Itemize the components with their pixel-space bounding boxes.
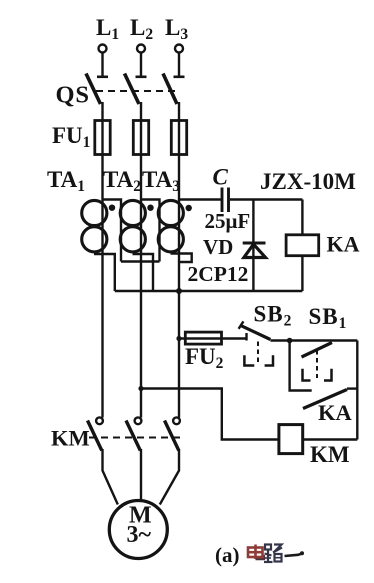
button SB1 operator dashed (316, 350, 318, 378)
contactor KM blade 1 (88, 421, 102, 451)
svg-text:JZX-10M: JZX-10M (260, 169, 356, 194)
motor M circle (109, 501, 167, 559)
terminal circle L2 (137, 45, 145, 53)
wire KM coil return (141, 389, 279, 440)
switch QS blade 1 (86, 74, 101, 105)
contactor KM linkage dashed (89, 437, 180, 439)
terminal circle L3 (175, 45, 183, 53)
node TA3 polarity dot (186, 205, 192, 211)
capacitor C plates (221, 188, 224, 213)
svg-text:2CP12: 2CP12 (188, 262, 249, 286)
caption hanzi lu (264, 545, 282, 563)
contactor KM blade 3 (165, 421, 179, 451)
wire L2 drop (140, 53, 142, 77)
transformer TA1 coil (82, 200, 107, 225)
wire TA1 secondary bottom (94, 254, 115, 291)
relay KA coil (286, 235, 319, 256)
svg-text:KM: KM (51, 426, 90, 451)
wire TA1-TA2 secondary link (121, 260, 160, 262)
node phase2 tap junction (138, 386, 143, 391)
contactor KM blade 2 (126, 421, 140, 451)
wire right branch vertical (356, 341, 358, 440)
contactor KM pivot circle 2 (135, 417, 142, 424)
contactor KM coil (279, 425, 303, 454)
contactor KM pivot circle 3 (173, 417, 180, 424)
wire right branch to KM coil (303, 438, 358, 440)
wire motor lead 3 (160, 449, 179, 505)
contact KA blade tick (347, 387, 357, 389)
fuse FU2 (185, 332, 221, 344)
wire motor lead 1 (103, 449, 118, 505)
switch QS blade 2 (125, 74, 140, 105)
fuse FU1 pole1 (95, 121, 110, 155)
wire phase2 vertical (140, 102, 142, 418)
svg-text:KM: KM (310, 442, 350, 467)
button SB2 fixed hooks (244, 355, 254, 365)
contactor KM pivot circle 1 (96, 417, 103, 424)
svg-text:QS: QS (56, 82, 90, 109)
wire motor lead 2 (140, 449, 142, 501)
relay KA branch wire bottom (301, 256, 303, 291)
button SB1 blade (302, 343, 333, 358)
wire phase1 vertical (101, 102, 103, 418)
node FU2 tap junction (176, 336, 181, 341)
switch QS linkage dashed (96, 90, 175, 92)
relay KA branch wire top (301, 200, 303, 235)
svg-text:C: C (213, 165, 229, 190)
svg-text:3~: 3~ (127, 522, 152, 548)
wire TA3 secondary loop (171, 254, 192, 263)
wire phase3 vertical (178, 102, 180, 418)
node bus-phase3 junction (176, 288, 182, 294)
wire TA1 secondary top (103, 200, 122, 262)
button SB2 contact tick (245, 333, 247, 341)
switch QS fixed contact 1 (97, 76, 108, 79)
button SB2 operator dashed (257, 342, 259, 366)
wire secondary bus (115, 290, 303, 292)
switch QS blade 3 (163, 74, 177, 105)
switch QS fixed contact 3 (174, 76, 185, 79)
transformer TA3 coil (158, 200, 183, 225)
node TA2 polarity dot (147, 205, 153, 211)
svg-text:(a): (a) (215, 543, 240, 567)
wire L1 drop (101, 53, 103, 77)
fuse FU1 pole3 (171, 121, 186, 155)
wire TA2 secondary top (141, 200, 160, 262)
button SB2 blade end tick (239, 321, 244, 328)
diode VD cathode bar (243, 242, 266, 245)
wire capacitor to relay (230, 198, 303, 200)
transformer TA2 coil (120, 200, 145, 225)
svg-text:VD: VD (203, 235, 233, 259)
fuse FU1 pole2 (133, 121, 148, 155)
button SB1 fixed hooks (303, 369, 311, 381)
svg-text:KA: KA (327, 232, 360, 257)
contact KA blade (303, 390, 347, 409)
caption hanzi dian (248, 545, 264, 560)
svg-text:KA: KA (318, 400, 353, 425)
caption hanzi yi (285, 553, 304, 556)
wire SB1 left branch (290, 341, 312, 391)
fuse FU2 feed wire (179, 337, 247, 339)
wire TA3 secondary to capacitor (179, 198, 221, 200)
svg-text:25μF: 25μF (205, 209, 251, 233)
wire SB2 to right branch (270, 339, 357, 341)
diode VD branch wire (252, 200, 254, 292)
wire TA2 secondary bottom (133, 254, 154, 291)
switch QS fixed contact 2 (136, 76, 147, 79)
button SB2 blade (240, 325, 270, 339)
terminal circle L1 (99, 45, 107, 53)
wire L3 drop (178, 53, 180, 77)
diode VD triangle (244, 244, 266, 257)
node TA1 polarity dot (109, 205, 115, 211)
node SB1 junction (287, 338, 293, 344)
